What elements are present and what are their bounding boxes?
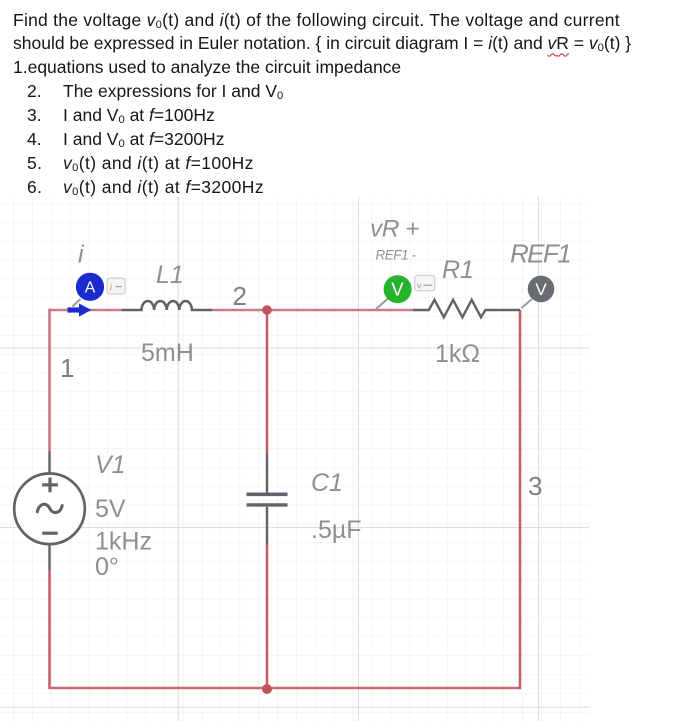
svg-text:5V: 5V	[95, 495, 126, 523]
probe V vR (green)	[384, 275, 412, 303]
svg-text:C1: C1	[311, 469, 343, 497]
svg-text:1: 1	[60, 353, 74, 383]
wire: middle vertical below C1	[266, 545, 269, 688]
svg-text:.5µF: .5µF	[311, 516, 362, 544]
wire: node 2 to R1	[267, 309, 413, 312]
node 3	[528, 471, 542, 501]
label REF1	[510, 239, 570, 269]
resistor R1	[413, 300, 520, 318]
label i	[78, 241, 85, 269]
current arrow i	[68, 303, 92, 316]
probe A pointer	[72, 299, 80, 307]
label REF1 -	[376, 248, 417, 263]
value 1kHz	[95, 528, 152, 556]
source V1 (AC)	[14, 452, 85, 571]
svg-text:REF1 -: REF1 -	[376, 248, 417, 263]
svg-text:3: 3	[528, 471, 542, 501]
value .5uF	[311, 516, 362, 544]
svg-text:A: A	[85, 280, 96, 297]
wire: left vertical above V1	[48, 309, 51, 452]
svg-text:REF1: REF1	[510, 239, 570, 269]
capacitor C1	[247, 454, 288, 545]
svg-text:v: v	[417, 281, 422, 291]
probe REF1 (gray voltage reference)	[528, 276, 555, 303]
wire: bottom horizontal	[48, 687, 520, 690]
svg-text:vR +: vR +	[370, 216, 419, 243]
svg-text:0°: 0°	[95, 553, 119, 581]
svg-text:5mH: 5mH	[141, 339, 194, 367]
wire: middle vertical above C1	[266, 310, 269, 454]
wire: top-left segment node 1 to L1	[50, 309, 123, 312]
label C1	[311, 469, 343, 497]
junction at bottom of middle branch	[262, 684, 272, 694]
label L1	[156, 261, 184, 289]
value 1kOhm	[435, 340, 480, 368]
node 2	[233, 281, 247, 311]
probe V mini icon	[415, 275, 435, 291]
svg-text:1kΩ: 1kΩ	[435, 340, 480, 368]
inductor L1	[122, 301, 212, 310]
wire: right vertical node 3	[519, 310, 522, 689]
value 5V	[95, 495, 126, 523]
value 0deg	[95, 553, 119, 581]
label V1	[95, 451, 126, 479]
wire: L1 to node 2	[212, 309, 267, 312]
probe REF1 pointer	[522, 299, 533, 308]
label R1	[442, 256, 474, 284]
svg-text:V: V	[391, 279, 404, 300]
junction node 2	[262, 305, 272, 315]
node 1	[60, 353, 74, 383]
svg-text:1kHz: 1kHz	[95, 528, 152, 556]
probe A mini icon	[107, 278, 125, 294]
probe A (current probe)	[76, 273, 104, 301]
label vR +	[370, 216, 419, 243]
svg-text:L1: L1	[156, 261, 184, 289]
wire: left vertical below V1	[48, 570, 51, 688]
svg-text:R1: R1	[442, 256, 474, 284]
probe V (vR) pointer	[376, 299, 388, 310]
svg-text:2: 2	[233, 281, 247, 311]
svg-text:V1: V1	[95, 451, 126, 479]
value 5mH	[141, 339, 194, 367]
svg-text:V: V	[535, 280, 547, 299]
